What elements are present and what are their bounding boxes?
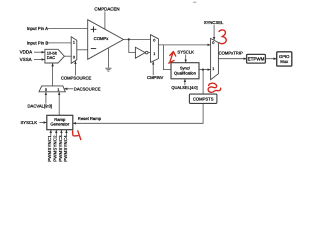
svg-text:1: 1 [73,41,75,45]
svg-text:0: 0 [153,38,155,42]
svg-text:Generator: Generator [50,122,69,127]
svg-text:1: 1 [153,52,155,56]
svg-text:1: 1 [212,67,214,71]
svg-text:0: 0 [45,88,47,92]
svg-text:0: 0 [73,55,75,59]
svg-text:QUALSEL[4:0]: QUALSEL[4:0] [171,85,197,90]
svg-text:CMPDACEN: CMPDACEN [94,6,119,11]
svg-text:VDDA: VDDA [20,50,33,55]
svg-text:PWMSYNC1: PWMSYNC1 [47,135,52,162]
svg-text:DAC: DAC [47,55,56,60]
svg-text:PWMSYNC4: PWMSYNC4 [63,135,68,162]
svg-text:ETPWM: ETPWM [248,57,265,62]
svg-text:Qualification: Qualification [174,70,196,75]
svg-text:Input Pin B: Input Pin B [27,40,49,45]
svg-text:COMPx: COMPx [94,36,110,41]
svg-text:COMPxTRIP: COMPxTRIP [219,51,243,56]
svg-text:Input Pin A: Input Pin A [27,26,48,31]
svg-text:SYSCLK: SYSCLK [21,120,38,125]
svg-text:SYNCSEL: SYNCSEL [204,20,224,25]
svg-text:DACSOURCE: DACSOURCE [74,87,101,92]
svg-text:COMPSTS: COMPSTS [193,96,214,101]
svg-text:Mux: Mux [280,59,289,64]
svg-text:1: 1 [57,88,59,92]
svg-text:COMPSOURCE: COMPSOURCE [61,76,92,81]
svg-text:SYSCLK: SYSCLK [177,49,194,54]
svg-text:DACVAL[9:0]: DACVAL[9:0] [28,104,53,109]
svg-text:Reset Ramp: Reset Ramp [78,116,102,121]
svg-text:VSSA: VSSA [20,57,32,62]
svg-text:0: 0 [212,41,214,45]
svg-text:CMPINV: CMPINV [147,75,163,80]
